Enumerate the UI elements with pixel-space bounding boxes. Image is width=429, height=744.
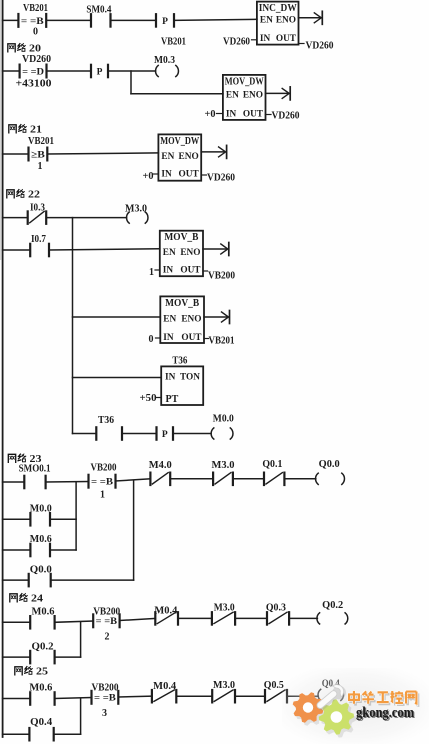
wire M0.6 to ==B n25: [55, 698, 92, 699]
svg-text:Q0.1: Q0.1: [262, 459, 282, 470]
svg-text:+43100: +43100: [16, 79, 52, 90]
svg-text:VB201: VB201: [161, 37, 186, 48]
wire SM0.1 to ==B: [46, 481, 89, 484]
svg-text:SMO0.1: SMO0.1: [19, 464, 51, 475]
wire to P: [122, 433, 157, 435]
svg-text:20: 20: [29, 44, 41, 55]
watermark background wash: [0, 0, 1, 1]
svg-text:VB201: VB201: [209, 336, 235, 347]
compare contact VB201 >=B: [27, 148, 29, 161]
svg-text:= =B: = =B: [91, 477, 114, 488]
svg-text:ENO: ENO: [180, 248, 200, 258]
MOVB2 OUT pin dash: [204, 338, 209, 340]
network 20 title: [8, 44, 15, 52]
svg-text:M0.0: M0.0: [30, 504, 52, 515]
svg-text:VB200: VB200: [91, 463, 117, 474]
MOVB1 OUT pin dash: [203, 270, 208, 272]
svg-text:ENO: ENO: [181, 315, 201, 325]
coil Q0.4: [318, 689, 321, 700]
wire M0.4 to M3.0 n25: [176, 695, 212, 697]
wire P to M0.3 coil: [108, 70, 156, 72]
wire to SM0.4: [46, 19, 91, 21]
svg-text:MOV_B: MOV_B: [164, 232, 198, 243]
coil M0.0: [211, 428, 214, 439]
svg-text:INC_DW: INC_DW: [259, 3, 297, 14]
branch rail vertical: [72, 218, 74, 434]
svg-text:P: P: [97, 68, 103, 78]
nc contact Q0.1: [263, 473, 265, 485]
wire rail to I0.3: [3, 217, 28, 219]
svg-text:ENO: ENO: [179, 152, 199, 162]
MOV_DW ENO arrow: [266, 92, 289, 94]
MOVB2 IN pin dash: [156, 337, 161, 339]
svg-text:M3.0: M3.0: [212, 460, 235, 471]
wire Q0.1 to coil Q0.0: [284, 478, 315, 480]
svg-text:24: 24: [31, 594, 43, 605]
wire M0.0 to rail: [50, 518, 76, 520]
wire M0.4 to M3.0 n24: [178, 617, 212, 619]
contact P (positive edge): [155, 14, 157, 26]
svg-text:OUT: OUT: [180, 265, 201, 275]
svg-text:22: 22: [28, 190, 40, 201]
svg-text:OUT: OUT: [276, 34, 297, 44]
svg-text:= =B: = =B: [96, 616, 118, 627]
svg-text:21: 21: [30, 125, 42, 136]
svg-text:VD260: VD260: [223, 37, 250, 48]
wire M4.0 to M3.0: [170, 478, 213, 480]
wire rail to M0.6 n25: [3, 698, 31, 700]
svg-text:OUT: OUT: [179, 170, 200, 180]
svg-text:+0: +0: [143, 171, 154, 182]
latch rail x133.6: [133, 481, 135, 580]
box MOV_B second: [160, 296, 204, 343]
svg-text:VD260: VD260: [22, 54, 51, 65]
watermark gear shadows: [295, 695, 356, 737]
svg-text:IN: IN: [163, 265, 174, 275]
svg-text:MOV_B: MOV_B: [165, 298, 199, 309]
coil M0.3: [156, 65, 159, 76]
svg-text:Q0.5: Q0.5: [264, 680, 284, 691]
wire ==B to M0.4: [120, 618, 156, 620]
svg-text:P: P: [162, 430, 168, 440]
compare contact VB200 ==B n23: [87, 475, 89, 488]
wire M3.0 to Q0.1: [233, 478, 264, 480]
svg-text:SM0.4: SM0.4: [86, 5, 111, 16]
compare contact ==B n25: [90, 691, 92, 704]
MOVB1 ENO arrow: [203, 248, 227, 250]
svg-text:IN: IN: [226, 110, 237, 120]
svg-text:1: 1: [100, 490, 105, 501]
svg-text:ENO: ENO: [243, 91, 263, 101]
svg-text:≥B: ≥B: [31, 149, 46, 160]
svg-text:0: 0: [33, 27, 38, 38]
svg-text:= =D: = =D: [22, 66, 44, 77]
MOVB1 IN pin dash: [155, 269, 160, 271]
svg-text:0: 0: [149, 334, 154, 345]
watermark wrench shadow: [315, 683, 349, 715]
contact M0.0 n23: [29, 513, 31, 525]
coil Q0.2: [317, 613, 320, 624]
svg-text:M4.0: M4.0: [149, 460, 172, 471]
compare contact VD260 ==D: [19, 65, 21, 78]
svg-text:2: 2: [105, 632, 110, 643]
wire to MOV_DW box: [47, 153, 158, 154]
svg-text:Q0.4: Q0.4: [30, 717, 52, 728]
svg-text:VB201: VB201: [28, 136, 54, 147]
coil M3.0: [127, 212, 130, 223]
left power rail: [2, 0, 4, 737]
wire branch to MOV_B2: [73, 316, 161, 318]
svg-text:1: 1: [38, 161, 43, 172]
svg-text:OUT: OUT: [181, 333, 202, 343]
svg-text:T36: T36: [172, 356, 187, 367]
wire rail to M0.0: [3, 518, 31, 520]
svg-text:M0.3: M0.3: [154, 55, 175, 66]
wire rail to >=B contact: [3, 153, 29, 155]
wire branch to T36 box: [73, 377, 162, 379]
svg-text:EN: EN: [163, 315, 176, 325]
box MOV_B first: [160, 231, 203, 277]
nc contact M0.4 n24: [154, 612, 156, 624]
svg-text:+0: +0: [205, 109, 216, 120]
contact I0.7: [29, 244, 31, 256]
network 24 title: [10, 594, 17, 602]
INC_DW IN pin dash: [252, 39, 257, 41]
nc contact M3.0 n24: [211, 612, 213, 624]
svg-text:EN: EN: [260, 16, 273, 26]
svg-text:Q0.2: Q0.2: [32, 642, 54, 653]
svg-text:P: P: [162, 17, 168, 27]
branch rail n24: [80, 622, 82, 657]
nc contact M4.0: [149, 473, 151, 485]
nc contact M3.0 n25: [211, 690, 213, 702]
wire rail to VB201 contact: [3, 19, 19, 21]
nc contact Q0.5: [264, 690, 266, 702]
nc contact I0.3: [27, 211, 29, 223]
svg-text:M0.4: M0.4: [154, 606, 177, 617]
svg-text:I0.7: I0.7: [31, 234, 46, 245]
contact Q0.2: [29, 651, 31, 663]
svg-text:MOV_DW: MOV_DW: [160, 136, 199, 147]
svg-text:Q0.0: Q0.0: [319, 459, 340, 470]
box INC_DW U-inc: [257, 2, 299, 45]
svg-text:M0.6: M0.6: [29, 683, 52, 694]
svg-text:EN: EN: [163, 248, 176, 258]
svg-text:VD260: VD260: [306, 41, 334, 52]
wire branch to T36 contact: [73, 433, 97, 435]
MOV_DW21 OUT pin dash: [201, 174, 206, 176]
compare contact VB201 ==B: [17, 14, 19, 27]
network 25 title: [15, 667, 22, 675]
svg-text:Q0.2: Q0.2: [322, 600, 343, 611]
nc contact M3.0 n23: [212, 473, 214, 485]
wire to P contact: [47, 70, 92, 72]
wire Q0.0 to latch rail: [51, 579, 134, 581]
MOV_DW OUT pin dash: [266, 114, 272, 116]
svg-text:+50: +50: [140, 393, 157, 404]
wire rail to Q0.2: [3, 656, 31, 658]
wire M3.0 to Q0.3: [235, 617, 267, 619]
svg-text:MOV_DW: MOV_DW: [225, 76, 264, 87]
contact M0.6 n23: [29, 544, 31, 556]
svg-text:TON: TON: [180, 373, 200, 383]
wire rail to M0.6: [3, 549, 31, 551]
box MOV_DW net21: [158, 134, 201, 180]
wire rail to Q0.0: [3, 579, 29, 581]
wire ==B to M0.4 n25: [118, 695, 152, 698]
INC_DW OUT pin dash: [299, 43, 305, 45]
wire to M0.0 coil: [173, 433, 211, 435]
svg-text:Q0.3: Q0.3: [266, 602, 286, 613]
branch rail n25: [80, 699, 82, 735]
wire I0.3 to M3.0 coil: [46, 217, 126, 219]
wire rail to I0.7: [3, 249, 31, 251]
contact Q0.4: [28, 728, 30, 740]
wire P to INC_DW box: [174, 19, 257, 20]
wire Q0.2 to rail: [55, 656, 81, 658]
branch wire down: [130, 71, 132, 94]
svg-text:VD260: VD260: [272, 111, 300, 122]
wire I0.7 to MOV_B1: [49, 249, 160, 250]
svg-text:Q0.0: Q0.0: [30, 565, 52, 576]
MOV_DW IN pin dash: [217, 113, 223, 115]
svg-text:VB201: VB201: [23, 3, 48, 14]
svg-text:1: 1: [149, 267, 154, 278]
wire to P contact: [111, 19, 157, 21]
coil Q0.0: [316, 473, 319, 484]
svg-text:T36: T36: [98, 415, 114, 426]
svg-text:gkong.com: gkong.com: [356, 705, 414, 721]
svg-text:VD260: VD260: [207, 173, 235, 184]
wire ==B to M4.0: [116, 479, 151, 481]
svg-text:IN: IN: [260, 34, 271, 44]
svg-text:PT: PT: [166, 394, 179, 405]
watermark orange gear: [293, 692, 324, 723]
network 22 title: [7, 190, 14, 198]
svg-text:M3.0: M3.0: [213, 680, 235, 691]
wire rail to Q0.4: [3, 733, 30, 735]
page edge shading: [0, 0, 1, 260]
contact SM0.1: [23, 476, 25, 488]
network 23 title: [8, 454, 15, 462]
watermark wrench: [313, 682, 346, 713]
svg-text:OUT: OUT: [243, 110, 264, 120]
wire Q0.4 to rail: [54, 733, 81, 735]
svg-text:IN: IN: [163, 333, 174, 343]
svg-text:VB200: VB200: [208, 271, 235, 282]
wire M0.6 to rail: [50, 549, 76, 551]
box T36 IN TON: [161, 366, 203, 405]
T36 PT pin dash: [157, 397, 162, 399]
contact P: [90, 65, 92, 77]
svg-text:25: 25: [36, 667, 48, 678]
svg-text:M0.6: M0.6: [30, 534, 52, 545]
wire Q0.3 to coil Q0.2: [289, 617, 317, 619]
svg-text:M0.0: M0.0: [213, 414, 234, 425]
compare contact ==B n24: [92, 614, 94, 627]
contact P edge: [155, 427, 157, 439]
contact SM0.4: [90, 14, 92, 26]
wire rail to SM0.1: [3, 481, 25, 483]
svg-text:EN: EN: [161, 152, 174, 162]
watermark green gear: [319, 699, 354, 734]
svg-text:= =B: = =B: [94, 693, 116, 704]
branch rail x76: [75, 482, 77, 550]
svg-text:M0.6: M0.6: [32, 607, 55, 618]
nc contact M0.4 n25: [151, 690, 153, 702]
wire rail to M0.6 n24: [3, 621, 31, 623]
wire rail to ==D contact: [3, 70, 20, 72]
network 21 title: [9, 125, 16, 133]
svg-text:IN: IN: [161, 170, 172, 180]
MOV_DW21 ENO arrow: [201, 151, 224, 153]
MOV_DW21 IN pin dash: [153, 173, 158, 175]
nc contact Q0.3: [266, 612, 268, 624]
svg-text:ENO: ENO: [276, 16, 296, 26]
wire M3.0 to Q0.5: [235, 695, 265, 697]
MOVB2 ENO arrow: [204, 316, 228, 318]
svg-text:EN: EN: [226, 91, 239, 101]
watermark text 中华工控网: [351, 693, 418, 706]
INC_DW ENO arrow: [299, 17, 321, 19]
svg-text:3: 3: [102, 708, 107, 719]
box MOV_DW net20: [223, 75, 266, 120]
svg-text:M3.0: M3.0: [214, 603, 235, 614]
contact M0.6 n25: [29, 692, 31, 704]
wire M0.6 to ==B n24: [55, 621, 94, 622]
contact M0.6 n24: [29, 616, 31, 628]
contact Q0.0 latch: [28, 574, 30, 586]
svg-text:IN: IN: [165, 373, 176, 383]
wire Q0.5 to coil Q0.4: [287, 695, 318, 697]
contact T36: [95, 427, 97, 439]
svg-text:= =B: = =B: [21, 16, 44, 27]
